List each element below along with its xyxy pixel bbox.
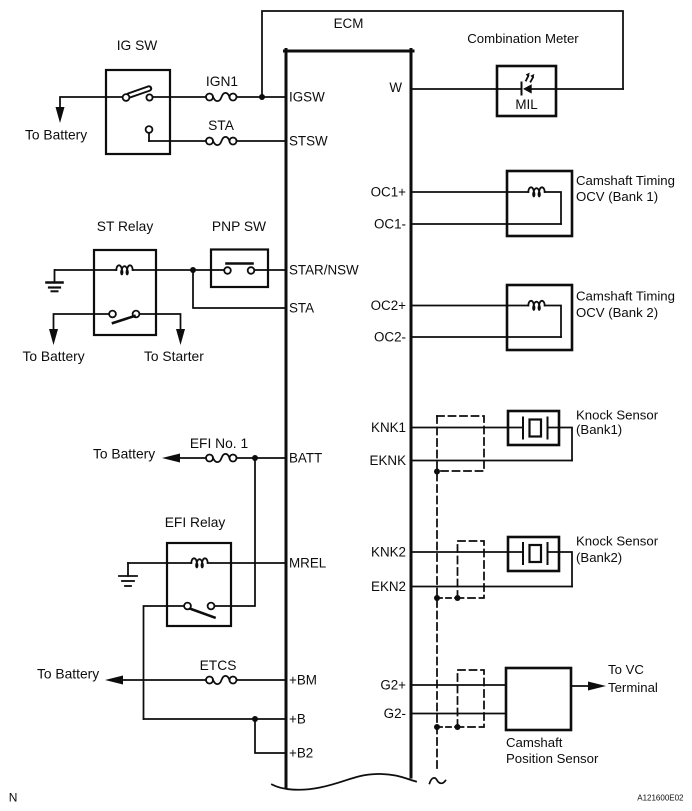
wire OCV2 internal return xyxy=(545,306,561,338)
svg-text:OC1-: OC1- xyxy=(374,217,406,232)
wire +BM line xyxy=(123,679,206,681)
svg-text:OC1+: OC1+ xyxy=(371,185,407,200)
svg-text:IGSW: IGSW xyxy=(289,90,325,105)
node junction IGN1/frame xyxy=(259,94,265,100)
svg-text:To Battery: To Battery xyxy=(37,667,99,682)
svg-text:A121600E02: A121600E02 xyxy=(637,794,684,803)
wire OC1- line xyxy=(412,223,562,225)
node shield junction knock1 xyxy=(434,469,440,475)
EFI relay switch contact xyxy=(184,603,214,618)
ECM box xyxy=(285,50,414,789)
svg-text:(Bank2): (Bank2) xyxy=(576,550,622,565)
wire OC2+ line xyxy=(412,305,529,307)
EFI relay coil xyxy=(191,558,207,568)
ground (EFI relay) xyxy=(119,563,137,586)
knock sensor Bank1 box xyxy=(508,411,559,445)
svg-text:N: N xyxy=(9,791,18,805)
wire KNK2 line xyxy=(412,551,523,553)
svg-text:STSW: STSW xyxy=(289,134,328,149)
node junction +B xyxy=(252,716,258,722)
ECM outer frame wire xyxy=(262,11,623,96)
svg-text:OCV (Bank 2): OCV (Bank 2) xyxy=(576,305,658,320)
svg-text:Knock Sensor: Knock Sensor xyxy=(576,408,659,423)
shield dashed link G2 xyxy=(437,726,458,728)
node shield junction knock2 drain xyxy=(434,595,440,601)
svg-text:STA: STA xyxy=(289,301,314,316)
IG SW ignition contact xyxy=(123,89,153,101)
fuse EFI No. 1 xyxy=(206,454,237,462)
wire KNK1 line xyxy=(412,427,523,429)
arrow to battery (top) xyxy=(56,107,65,123)
arrow to VC terminal xyxy=(571,685,589,687)
svg-text:ECM: ECM xyxy=(334,16,364,31)
svg-text:Camshaft Timing: Camshaft Timing xyxy=(576,289,675,304)
shield dashed box G2 xyxy=(458,670,485,727)
wire ST relay to PNP SW xyxy=(156,269,211,271)
wire EKN2 line xyxy=(412,586,573,588)
svg-text:+B2: +B2 xyxy=(289,746,313,761)
knock sensor Bank2 piezo element xyxy=(523,543,548,564)
knock sensor Bank1 piezo element xyxy=(523,418,548,439)
svg-text:Position Sensor: Position Sensor xyxy=(506,751,599,766)
svg-text:BATT: BATT xyxy=(289,451,322,466)
camshaft position sensor box xyxy=(506,668,571,730)
svg-text:OCV (Bank 1): OCV (Bank 1) xyxy=(576,189,658,204)
svg-text:(Bank1): (Bank1) xyxy=(576,422,622,437)
relay ST Relay box xyxy=(94,250,156,335)
svg-text:EKNK: EKNK xyxy=(370,453,407,468)
OCV2 coil xyxy=(528,301,544,311)
arrow to starter xyxy=(176,329,185,345)
node shield junction G2 drain xyxy=(434,724,440,730)
wire PNP to ECM xyxy=(268,269,285,271)
svg-text:IG SW: IG SW xyxy=(117,38,158,53)
wire knock1 return xyxy=(548,428,573,461)
arrow to battery (+BM) xyxy=(105,676,123,685)
switch PNP SW box xyxy=(211,250,268,288)
ST relay coil xyxy=(94,265,156,275)
OCV1 coil xyxy=(528,187,544,197)
fuse STA xyxy=(206,137,237,145)
svg-text:To Starter: To Starter xyxy=(144,349,204,364)
ST relay switch contact xyxy=(109,311,139,323)
svg-text:KNK1: KNK1 xyxy=(371,420,406,435)
arrow to battery (BATT) xyxy=(162,454,180,463)
svg-text:To Battery: To Battery xyxy=(25,128,87,143)
ground (ST relay) xyxy=(47,270,63,291)
svg-text:EKN2: EKN2 xyxy=(371,579,406,594)
fuse ETCS xyxy=(206,676,237,684)
shield dashed drain line xyxy=(436,416,438,772)
svg-text:+BM: +BM xyxy=(289,673,317,688)
knock sensor Bank2 box xyxy=(508,537,559,571)
wire OCV1 internal return xyxy=(545,192,561,224)
svg-text:To Battery: To Battery xyxy=(23,349,85,364)
wire STSW line xyxy=(149,140,206,142)
wire IGSW line xyxy=(106,96,123,98)
wire EFI relay switch to +B rail xyxy=(167,605,184,607)
svg-text:G2-: G2- xyxy=(384,706,406,721)
wire OC1+ line xyxy=(412,191,529,193)
wire ST relay switch left to battery xyxy=(94,313,109,315)
wire ST relay switch right to starter xyxy=(140,313,157,315)
switch IG SW box xyxy=(106,70,170,154)
solenoid OCV Bank2 box xyxy=(507,285,572,350)
LED MIL symbol xyxy=(497,73,556,95)
wire IG SW to battery xyxy=(60,97,106,107)
svg-text:KNK2: KNK2 xyxy=(371,545,406,560)
fuse IGN1 xyxy=(206,93,237,101)
svg-text:OC2+: OC2+ xyxy=(371,298,407,313)
wire W line xyxy=(412,88,498,90)
node shield junction knock2 box xyxy=(455,595,461,601)
svg-text:To VC: To VC xyxy=(608,662,644,677)
wire ground to EFI relay coil xyxy=(128,562,191,564)
svg-text:MIL: MIL xyxy=(515,97,537,112)
wire ground to ST relay xyxy=(55,269,94,271)
svg-text:ST Relay: ST Relay xyxy=(97,219,154,234)
shield dashed box knock2 xyxy=(458,541,485,598)
svg-text:OC2-: OC2- xyxy=(374,330,406,345)
wire STA branch xyxy=(193,270,285,308)
svg-text:PNP SW: PNP SW xyxy=(212,219,266,234)
svg-text:Camshaft: Camshaft xyxy=(506,735,563,750)
node junction STAR/NSW xyxy=(190,267,196,273)
svg-text:Camshaft Timing: Camshaft Timing xyxy=(576,173,675,188)
wire MREL line xyxy=(208,562,285,564)
svg-text:EFI Relay: EFI Relay xyxy=(165,515,226,530)
relay EFI Relay box xyxy=(167,543,231,626)
PNP SW contacts xyxy=(211,264,268,274)
svg-text:Combination Meter: Combination Meter xyxy=(467,31,579,46)
svg-text:EFI No. 1: EFI No. 1 xyxy=(190,436,248,451)
wire +B2 branch xyxy=(255,719,285,753)
svg-text:G2+: G2+ xyxy=(380,678,406,693)
svg-text:IGN1: IGN1 xyxy=(206,74,238,89)
svg-text:STA: STA xyxy=(208,118,235,133)
shield drain end squiggle xyxy=(430,778,446,784)
wire BATT line xyxy=(180,457,206,459)
ECM box torn bottom wave xyxy=(272,774,416,790)
shield dashed link knock2 xyxy=(437,597,458,599)
wire BATT to EFI relay switch xyxy=(215,458,256,606)
shield dashed box knock1 xyxy=(437,416,484,471)
svg-text:+B: +B xyxy=(289,712,306,727)
svg-text:W: W xyxy=(389,80,402,95)
wire OC2- line xyxy=(412,336,562,338)
node shield junction G2 box xyxy=(455,724,461,730)
svg-text:To Battery: To Battery xyxy=(93,447,155,462)
svg-text:MREL: MREL xyxy=(289,556,326,571)
wire EKNK line xyxy=(412,460,573,462)
svg-text:Knock Sensor: Knock Sensor xyxy=(576,534,659,549)
svg-text:Terminal: Terminal xyxy=(608,680,658,695)
wire G2+ line xyxy=(412,684,507,686)
arrow to battery (ST relay) xyxy=(49,329,58,345)
svg-text:STAR/NSW: STAR/NSW xyxy=(289,263,359,278)
wire G2- line xyxy=(412,713,507,715)
node junction BATT xyxy=(252,455,258,461)
wire knock2 return xyxy=(548,552,573,587)
IG SW starter contact xyxy=(146,126,153,141)
wire +B line xyxy=(144,718,285,720)
svg-text:ETCS: ETCS xyxy=(200,658,237,673)
solenoid OCV Bank1 box xyxy=(507,171,572,236)
lamp MIL box xyxy=(497,66,556,116)
